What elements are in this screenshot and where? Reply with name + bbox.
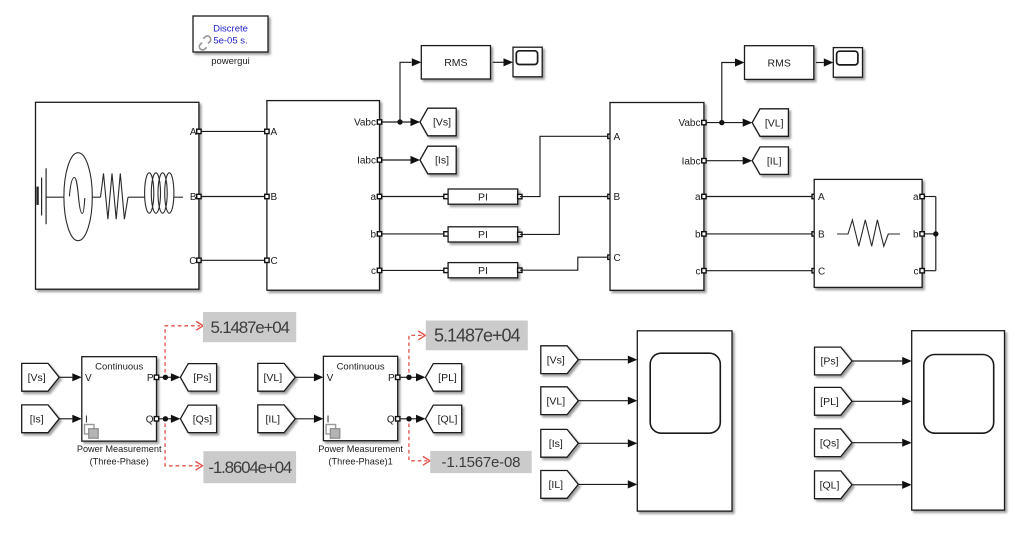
source icon sine wave — [69, 178, 84, 214]
svg-text:B: B — [818, 230, 825, 241]
svg-text:Q: Q — [146, 414, 154, 425]
svg-text:A: A — [271, 127, 278, 138]
svg-text:[Vs]: [Vs] — [433, 117, 451, 129]
block three-phase V-I measurement 1 — [267, 101, 380, 291]
wire meas2 Iabc to IL tag — [704, 160, 743, 162]
svg-text:5.1487e+04: 5.1487e+04 — [434, 326, 521, 346]
svg-text:-1.1567e-08: -1.1567e-08 — [442, 454, 521, 471]
wire Is tag to PM1 I — [59, 418, 72, 420]
svg-text:B: B — [190, 192, 197, 203]
block three-phase source — [36, 102, 199, 289]
block RMS 2 — [745, 46, 814, 80]
svg-text:RMS: RMS — [768, 57, 791, 69]
svg-text:a: a — [695, 192, 701, 203]
display line PM1 Q — [165, 424, 199, 466]
goto tag [Vs] — [420, 108, 456, 136]
svg-text:PI: PI — [478, 191, 488, 203]
from tag [Is] — [22, 405, 60, 433]
wire meas1 Vabc to Vs tag — [380, 121, 420, 123]
wire load c to bus — [922, 270, 936, 272]
wire PI3 to meas2 C — [520, 257, 610, 270]
svg-text:[Is]: [Is] — [30, 414, 44, 426]
from tag [Ps] scope2 — [815, 347, 853, 375]
from tag [IL] scope1 — [541, 471, 579, 499]
svg-text:c: c — [696, 266, 701, 277]
svg-text:C: C — [614, 253, 621, 264]
wire [Is] to scope1 — [578, 442, 628, 444]
wire source C to meas1 C — [199, 259, 267, 261]
from tag [PL] scope2 — [815, 387, 853, 415]
from tag [IL] — [258, 405, 296, 433]
block RMS 1 — [421, 46, 490, 79]
svg-text:-1.8604e+04: -1.8604e+04 — [208, 458, 291, 477]
wire PM1 P to Ps tag — [159, 376, 171, 378]
svg-text:C: C — [189, 256, 196, 267]
svg-text:I: I — [327, 414, 330, 425]
svg-text:[VL]: [VL] — [546, 395, 565, 407]
svg-text:powergui: powergui — [211, 56, 250, 67]
svg-text:b: b — [370, 230, 376, 241]
display line PM2 P — [409, 335, 422, 372]
svg-text:PI: PI — [478, 265, 488, 277]
svg-text:[IL]: [IL] — [767, 155, 782, 167]
svg-text:Iabc: Iabc — [357, 156, 376, 167]
from tag [Qs] scope2 — [815, 429, 853, 457]
svg-text:a: a — [370, 192, 376, 203]
wire source A to meas1 A — [199, 130, 267, 132]
svg-text:5.1487e+04: 5.1487e+04 — [210, 318, 289, 337]
svg-text:(Three-Phase): (Three-Phase) — [90, 456, 149, 466]
block scope PQ — [912, 331, 1005, 510]
wire meas1 c to PI3 — [380, 269, 449, 271]
svg-text:Continuous: Continuous — [95, 361, 143, 372]
scope RMS2 — [833, 48, 862, 78]
scope RMS1 — [513, 47, 542, 77]
block powergui — [193, 16, 268, 52]
from tag [Vs] scope1 — [541, 346, 579, 374]
junction load bus — [933, 231, 938, 236]
junction PM1 P — [163, 375, 168, 380]
svg-text:Vabc: Vabc — [354, 118, 376, 129]
svg-text:[Ps]: [Ps] — [820, 356, 838, 368]
wire load bus vertical — [935, 197, 937, 271]
junction PM2 P — [406, 375, 411, 380]
svg-text:[IL]: [IL] — [266, 414, 281, 426]
wire [Ps] to scope2 — [852, 360, 902, 362]
svg-text:[Qs]: [Qs] — [820, 437, 839, 449]
wire junction to RMS1 — [400, 62, 412, 122]
display 5.1487e+04 (Ps) — [203, 312, 296, 342]
svg-text:B: B — [614, 192, 621, 203]
PM1 subsystem badge — [85, 425, 99, 439]
svg-text:[PL]: [PL] — [820, 396, 839, 408]
svg-text:PI: PI — [478, 229, 488, 241]
goto tag [QL] — [426, 405, 462, 433]
source icon wire to inductor — [128, 196, 145, 198]
svg-text:Q: Q — [387, 414, 395, 425]
wire [IL] to scope1 — [578, 483, 628, 485]
svg-text:[Is]: [Is] — [435, 155, 449, 167]
wire meas1 b to PI2 — [380, 233, 449, 235]
display -1.1567e-08 (QL) — [430, 451, 532, 473]
display -1.8604e+04 (Qs) — [203, 451, 296, 483]
svg-text:[IL]: [IL] — [549, 479, 564, 491]
load icon resistor — [837, 220, 900, 246]
source icon output tail — [174, 196, 183, 198]
svg-text:[QL]: [QL] — [820, 480, 840, 492]
source icon wire to ac source — [46, 196, 64, 198]
PM2 subsystem badge — [326, 425, 340, 439]
svg-text:Vabc: Vabc — [678, 118, 700, 129]
svg-text:B: B — [271, 192, 278, 203]
goto tag [PL] — [426, 364, 462, 392]
wire load a to bus — [922, 196, 936, 198]
source icon ac source ellipse — [64, 153, 92, 241]
wire meas1 Iabc to Is tag — [380, 159, 411, 161]
wire PI2 to meas2 B — [520, 197, 610, 235]
goto tag [Ps] — [180, 364, 216, 392]
svg-text:[QL]: [QL] — [438, 414, 458, 426]
wire PI1 to meas2 A — [520, 136, 610, 196]
svg-text:[VL]: [VL] — [765, 117, 784, 129]
svg-text:I: I — [85, 414, 88, 425]
svg-text:Discrete: Discrete — [213, 24, 248, 35]
svg-text:A: A — [818, 192, 825, 203]
svg-text:[Qs]: [Qs] — [193, 414, 212, 426]
from tag [Vs] — [22, 363, 60, 391]
junction Vabc source — [397, 119, 402, 124]
from tag [VL] scope1 — [541, 387, 579, 415]
svg-text:5e-05 s.: 5e-05 s. — [213, 36, 247, 47]
wire source B to meas1 B — [199, 196, 267, 198]
svg-text:Power Measurement: Power Measurement — [77, 444, 162, 454]
svg-text:a: a — [913, 192, 919, 203]
wire [Vs] to scope1 — [578, 359, 628, 361]
wire PM1 Q to Qs tag — [159, 418, 171, 420]
svg-text:C: C — [818, 266, 825, 277]
wire meas1 a to PI1 — [380, 196, 449, 198]
source icon resistor zigzag — [101, 173, 129, 219]
goto tag [Qs] — [180, 405, 216, 433]
powergui broken-link icon — [197, 35, 214, 52]
svg-text:Iabc: Iabc — [682, 156, 701, 167]
svg-text:V: V — [85, 373, 92, 384]
block three-phase load — [814, 179, 922, 287]
block PI section 3 — [448, 263, 518, 278]
display line PM2 Q — [409, 424, 427, 461]
wire [PL] to scope2 — [852, 400, 902, 402]
from tag [VL] — [258, 363, 296, 391]
svg-text:[Vs]: [Vs] — [547, 354, 565, 366]
wire Vs tag to PM1 V — [59, 376, 72, 378]
goto tag [Is] — [420, 146, 456, 174]
from tag [QL] scope2 — [815, 471, 853, 499]
block power measurement 1 — [82, 357, 157, 441]
svg-text:C: C — [271, 256, 278, 267]
svg-text:c: c — [371, 266, 376, 277]
svg-text:V: V — [327, 373, 334, 384]
wire meas2 a to load A — [704, 196, 814, 198]
svg-text:P: P — [388, 373, 395, 384]
svg-text:P: P — [147, 373, 154, 384]
wire meas2 b to load B — [704, 233, 814, 235]
wire junction to RMS2 — [722, 63, 735, 123]
block PI section 1 — [448, 189, 518, 204]
svg-text:b: b — [695, 230, 701, 241]
wire RMS1 to scope — [493, 61, 504, 63]
goto tag [IL] — [752, 147, 788, 175]
from tag [Is] scope1 — [541, 429, 579, 457]
wire RMS2 to scope — [816, 62, 824, 64]
svg-text:A: A — [190, 127, 197, 138]
wire IL tag to PM2 I — [295, 418, 314, 420]
svg-text:Continuous: Continuous — [337, 361, 385, 372]
wire [VL] to scope1 — [578, 400, 628, 402]
svg-text:[Is]: [Is] — [549, 438, 563, 450]
wire load b to bus — [922, 233, 936, 235]
junction PM2 Q — [406, 416, 411, 421]
block PI section 2 — [448, 227, 518, 242]
goto tag [VL] — [752, 109, 788, 137]
source icon battery plates — [38, 168, 47, 224]
block scope VI — [637, 331, 732, 511]
block power measurement 2 — [323, 356, 397, 440]
svg-text:RMS: RMS — [444, 57, 467, 69]
svg-text:[VL]: [VL] — [263, 372, 282, 384]
source icon inductor coils — [145, 173, 174, 213]
display line PM1 P — [165, 326, 200, 373]
wire meas2 Vabc to VL tag — [704, 122, 751, 124]
svg-text:b: b — [913, 230, 919, 241]
source icon wire to resistor — [92, 196, 100, 198]
junction Vabc load — [719, 120, 724, 125]
svg-text:[Vs]: [Vs] — [28, 372, 46, 384]
display 5.1487e+04 (PL) — [426, 321, 528, 351]
svg-text:Power Measurement: Power Measurement — [318, 444, 403, 454]
svg-text:(Three-Phase)1: (Three-Phase)1 — [328, 456, 392, 466]
svg-text:c: c — [914, 266, 919, 277]
wire meas2 c to load C — [704, 270, 814, 272]
wire PM2 P to PL tag — [400, 376, 416, 378]
wire PM2 Q to QL tag — [400, 418, 416, 420]
wire [QL] to scope2 — [852, 484, 902, 486]
svg-text:[PL]: [PL] — [438, 372, 457, 384]
junction PM1 Q — [163, 416, 168, 421]
wire VL tag to PM2 V — [295, 376, 314, 378]
block three-phase V-I measurement 2 — [610, 103, 704, 291]
wire [Qs] to scope2 — [852, 442, 902, 444]
svg-text:[Ps]: [Ps] — [193, 372, 211, 384]
svg-text:A: A — [614, 132, 621, 143]
